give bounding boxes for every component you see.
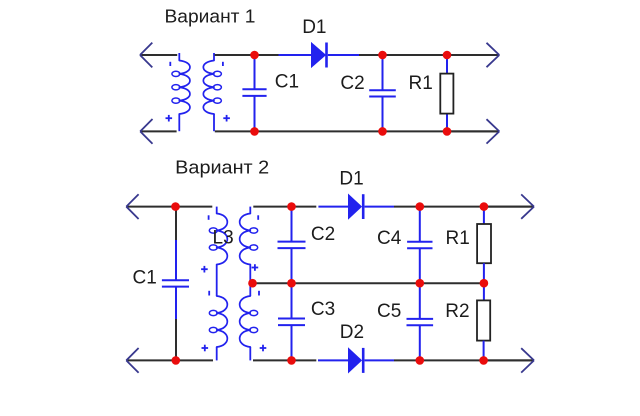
svg-text:C2: C2 — [340, 73, 364, 94]
svg-text:R2: R2 — [445, 301, 469, 322]
svg-text:C1: C1 — [275, 72, 299, 93]
svg-text:C4: C4 — [377, 228, 402, 249]
svg-text:R1: R1 — [409, 73, 433, 94]
svg-text:D1: D1 — [302, 17, 326, 38]
svg-text:L3: L3 — [213, 228, 234, 249]
svg-text:C1: C1 — [133, 268, 157, 289]
svg-text:Вариант 1: Вариант 1 — [165, 6, 256, 26]
svg-text:R1: R1 — [446, 228, 470, 249]
svg-text:C5: C5 — [377, 301, 401, 322]
svg-text:C2: C2 — [311, 224, 335, 245]
svg-text:C3: C3 — [311, 299, 335, 320]
svg-text:D2: D2 — [340, 322, 364, 343]
svg-text:Вариант 2: Вариант 2 — [175, 158, 269, 178]
svg-text:D1: D1 — [339, 168, 363, 189]
